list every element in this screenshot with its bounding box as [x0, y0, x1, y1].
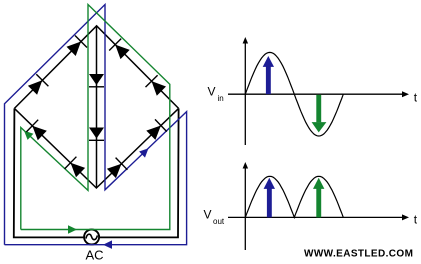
- svg-text:V: V: [204, 208, 212, 222]
- svg-text:WWW.EASTLED.COM: WWW.EASTLED.COM: [304, 249, 413, 260]
- svg-text:AC: AC: [86, 248, 104, 263]
- svg-text:out: out: [213, 217, 225, 226]
- svg-text:in: in: [218, 94, 224, 103]
- svg-text:V: V: [208, 85, 216, 99]
